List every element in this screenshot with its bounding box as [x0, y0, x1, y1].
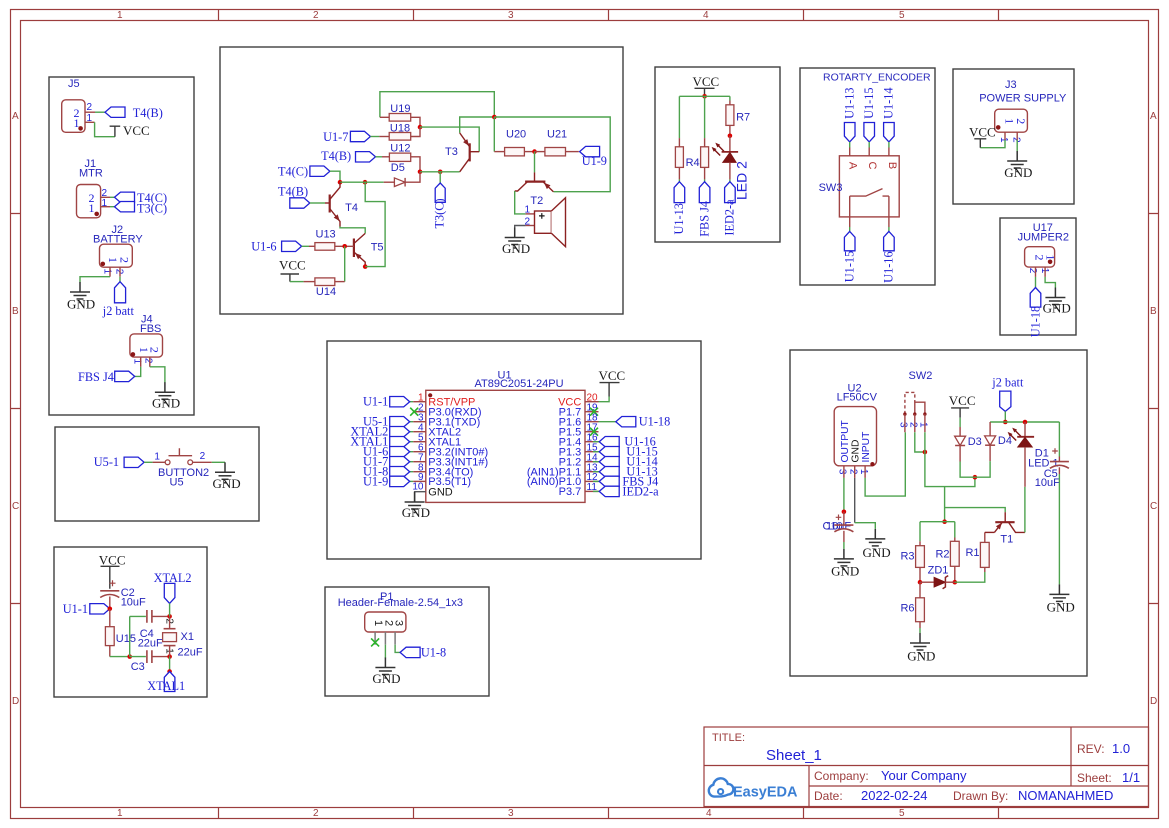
- junction dot row A right: [363, 180, 368, 185]
- section box header P1: [325, 587, 489, 696]
- mcu U1 pin 14 lead: [585, 461, 599, 463]
- svg-text:GND: GND: [1047, 600, 1075, 615]
- mcu U1 pin 3 lead: [410, 421, 414, 423]
- diode D3 triangle: [955, 436, 966, 445]
- mcu U1 pin 4 lead: [410, 431, 414, 433]
- resistor R3 bottom lead: [919, 567, 921, 582]
- ground (U1 pin10): [405, 492, 425, 513]
- junction dot R7/LED2: [728, 134, 733, 139]
- wire rail to R5: [704, 96, 706, 138]
- wire J4.2 to GND: [150, 367, 165, 383]
- svg-text:R1: R1: [965, 547, 979, 559]
- svg-text:U1-9: U1-9: [582, 154, 607, 168]
- resistor U21 left lead: [535, 151, 545, 153]
- wire U2.2 to GND: [855, 523, 876, 529]
- resistor U14 right lead: [335, 281, 345, 283]
- svg-text:U1-7: U1-7: [323, 130, 348, 144]
- svg-text:2: 2: [143, 358, 154, 364]
- svg-text:1: 1: [154, 452, 160, 463]
- wire P1.3 to U1-8: [395, 645, 400, 653]
- svg-text:T3(C): T3(C): [433, 198, 447, 228]
- wire R4 to U1-13 flag: [678, 179, 680, 181]
- wire speaker pin2 to GND: [515, 226, 526, 228]
- resistor R7 bottom lead: [729, 125, 731, 135]
- svg-text:2: 2: [1014, 118, 1028, 124]
- resistor U14 left lead: [304, 281, 315, 283]
- resistor R1 top lead: [984, 532, 986, 542]
- capacitor C10 curved plate: [834, 529, 853, 532]
- mcu U1 pin 13 lead: [585, 471, 599, 473]
- resistor U12 left lead: [382, 156, 389, 158]
- no-connect cross pin1: [371, 638, 379, 646]
- wire U1 pin 14 stub: [593, 461, 599, 463]
- net flag IED2-a (leds, pointing up): [725, 182, 736, 203]
- power VCC (J3) bar: [974, 139, 986, 148]
- header P1 body: [365, 612, 406, 632]
- section box mcu U1: [327, 341, 701, 559]
- wire U1 pin20 to VCC: [599, 397, 610, 402]
- section box J3 power supply: [953, 69, 1074, 204]
- section box power regulator: [790, 350, 1087, 676]
- mcu U1 pin 11 lead: [585, 490, 599, 492]
- no-connect cross U1 pin 17: [590, 428, 598, 436]
- net flag U1-6 (U1 left): [390, 447, 410, 457]
- svg-text:10uF: 10uF: [121, 597, 146, 609]
- wire C10 to GND: [843, 542, 845, 549]
- svg-text:1: 1: [525, 205, 531, 216]
- resistor U21 right lead: [566, 151, 579, 153]
- svg-text:1: 1: [998, 137, 1009, 143]
- wire T2 left leg to speaker pin1: [515, 191, 526, 214]
- net flag T4(B): [105, 107, 125, 117]
- mcu U1 pin 9 lead: [410, 480, 414, 482]
- led LED2 cathode bar: [722, 151, 739, 153]
- led LED2 bottom lead: [729, 162, 731, 179]
- svg-text:OUTPUT: OUTPUT: [840, 419, 851, 462]
- connector J5 pin 2 stub: [85, 111, 95, 113]
- junction dot ZD1 right: [953, 580, 958, 585]
- net flag U1-1 (U1 left): [390, 397, 410, 407]
- speaker LS body: [535, 211, 552, 233]
- svg-text:U20: U20: [506, 129, 526, 141]
- svg-text:Company:: Company:: [814, 769, 869, 783]
- wire R5 to FBS J4 flag: [704, 179, 706, 181]
- connector J5 body: [62, 100, 85, 133]
- ground (C5): [1049, 584, 1069, 605]
- resistor R2 bottom lead: [954, 566, 956, 582]
- diode D3 top lead: [959, 427, 961, 436]
- frame ticks left: [10, 214, 20, 604]
- svg-text:TITLE:: TITLE:: [712, 732, 745, 744]
- junction dot U1-1: [108, 607, 113, 612]
- transistor T2 base bar: [525, 181, 545, 183]
- svg-text:2: 2: [848, 469, 859, 475]
- title block v-line logo cell: [808, 766, 810, 807]
- capacitor C5 top lead: [1058, 457, 1060, 462]
- wire T4(B) to U12: [376, 156, 383, 158]
- wire R3/R2 rail: [920, 521, 955, 523]
- svg-text:GND: GND: [502, 241, 530, 256]
- transistor T4 base bar: [329, 195, 331, 213]
- resistor U18 left lead: [379, 136, 389, 138]
- resistor R3: [916, 546, 925, 568]
- junction dot VCC rail: [702, 94, 707, 99]
- transistor T4 collector: [330, 182, 340, 199]
- speaker LS horn: [551, 198, 565, 247]
- connector J4 junction dot pin1: [131, 352, 136, 357]
- power VCC (leds) bar: [695, 88, 715, 96]
- svg-text:3: 3: [392, 620, 404, 626]
- title block h-line under company row: [809, 785, 1149, 787]
- zener ZD1 left lead: [920, 581, 934, 583]
- diode D3 bottom lead: [959, 446, 961, 462]
- svg-text:D: D: [1150, 696, 1157, 707]
- capacitor C10 bottom lead: [843, 531, 845, 542]
- wire LED2 to IED2-a flag: [729, 179, 731, 181]
- wire row A: [340, 181, 384, 183]
- svg-text:5: 5: [899, 10, 905, 21]
- switch SW2 pin 3 lead: [904, 414, 906, 432]
- wire T5 emitter loop to row A: [365, 182, 385, 266]
- title block v-line rev cell: [1070, 727, 1072, 786]
- net flag IED2-a (U1 right): [599, 486, 619, 496]
- svg-text:1: 1: [1039, 268, 1050, 274]
- wire rail to R2: [954, 522, 956, 538]
- power VCC (U14) bar: [281, 274, 300, 282]
- led D1 bottom lead: [1024, 447, 1026, 487]
- mcu U1 body: [426, 390, 585, 502]
- svg-text:T4(C): T4(C): [278, 165, 308, 179]
- net flag U1-13 (leds, pointing up): [674, 182, 685, 203]
- diode D5 triangle: [394, 178, 405, 187]
- wire J5.2 to T4(B): [95, 111, 105, 113]
- wire j2 batt to rail: [1004, 411, 1006, 422]
- wire P1.2 to GND: [384, 645, 386, 659]
- wire J1.1 to T3(C): [110, 206, 115, 208]
- svg-text:B: B: [1150, 306, 1157, 317]
- button U5 actuator bar: [169, 448, 193, 456]
- transistor T4 base lead: [325, 202, 330, 204]
- resistor U18 right lead: [411, 127, 420, 136]
- svg-text:INPUT: INPUT: [861, 431, 872, 463]
- switch SW2 solid bracket: [915, 402, 925, 414]
- connector J1 junction dot pin1: [94, 212, 99, 217]
- resistor R4 bottom lead: [678, 167, 680, 179]
- svg-text:1: 1: [117, 808, 123, 819]
- svg-text:AT89C2051-24PU: AT89C2051-24PU: [475, 378, 564, 390]
- resistor U15 bottom lead: [109, 646, 111, 657]
- svg-text:U1-15: U1-15: [843, 251, 857, 282]
- transistor T3 lower diagonal: [460, 158, 470, 172]
- resistor R5 bottom lead: [704, 167, 706, 179]
- net flag T4(C) at J1: [115, 192, 135, 202]
- regulator U2 pin 2 gray lead: [854, 478, 856, 523]
- svg-text:VCC: VCC: [599, 368, 626, 383]
- svg-text:ZD1: ZD1: [928, 565, 949, 577]
- resistor R4: [675, 147, 683, 168]
- svg-text:D4: D4: [998, 435, 1012, 447]
- junction dot D1 top: [1023, 420, 1028, 425]
- wire flag A to SW3: [849, 142, 851, 148]
- wire U1 pin 11 stub: [593, 490, 599, 492]
- switch SW3 contact symbol: [850, 189, 889, 197]
- svg-text:4: 4: [703, 10, 709, 21]
- svg-text:1/1: 1/1: [1122, 770, 1140, 785]
- resistor U12: [389, 153, 410, 161]
- ground (U2 pin2): [865, 529, 885, 550]
- section box U17 jumper: [1000, 218, 1076, 335]
- wire XTAL2 to X1: [169, 603, 171, 616]
- wire branch to T1 base rail: [945, 487, 1006, 522]
- net flag U1-13 (encoder, pointing down): [844, 123, 855, 142]
- svg-text:U1-6: U1-6: [251, 239, 276, 253]
- wire VCC rail: [679, 95, 730, 97]
- svg-text:Drawn By:: Drawn By:: [953, 789, 1008, 803]
- wire U17.1 to GND: [1045, 277, 1055, 288]
- header P1 pin 1 lead: [374, 632, 376, 645]
- net flag U1-8 (U1 left): [390, 467, 410, 477]
- svg-text:J3: J3: [1005, 79, 1017, 91]
- net flag XTAL1 (U1 left): [390, 437, 410, 447]
- svg-text:JUMPER2: JUMPER2: [1018, 232, 1069, 244]
- junction dot U20/U21: [532, 149, 537, 154]
- wire J2.2 to j2 batt: [119, 277, 121, 282]
- wire U1 pin 16 stub: [593, 441, 599, 443]
- net flag FBS J4 (U1 right): [599, 476, 619, 486]
- transistor T4 emitter with arrow: [330, 209, 340, 227]
- junction dot X1 bottom: [167, 654, 172, 659]
- led LED2 emission arrows: [718, 145, 724, 151]
- svg-text:VCC: VCC: [123, 123, 150, 138]
- svg-text:1: 1: [858, 469, 869, 475]
- svg-text:IED2-a: IED2-a: [622, 484, 659, 498]
- net flag U1-14 (U1 right): [599, 457, 619, 467]
- net flag T4(B) upper: [356, 152, 376, 162]
- svg-text:D3: D3: [968, 436, 982, 448]
- button U5 contact circle 1: [165, 460, 170, 465]
- resistor R7 top lead: [729, 101, 731, 105]
- svg-text:FBS J4: FBS J4: [697, 201, 711, 237]
- wire U1 pin 12 stub: [593, 480, 599, 482]
- junction dot row A left: [338, 180, 343, 185]
- capacitor C3 plates: [147, 650, 152, 663]
- resistor U20 left lead: [494, 151, 504, 153]
- svg-text:3: 3: [508, 10, 514, 21]
- wire flag B to SW3: [888, 142, 890, 148]
- svg-text:GND: GND: [851, 440, 862, 463]
- wire J3.2 to GND: [1016, 140, 1018, 151]
- svg-text:T2: T2: [530, 195, 543, 207]
- svg-text:XTAL1: XTAL1: [147, 679, 185, 693]
- ground (C10): [834, 549, 854, 570]
- button U5 pin2 lead: [193, 461, 212, 463]
- section box crystal: [54, 547, 207, 697]
- wire rail to R7: [729, 96, 731, 100]
- transistor T1 emitter lead: [985, 531, 995, 533]
- wire VCC to D3: [959, 418, 961, 427]
- mcu U1 pin 7 lead: [410, 461, 414, 463]
- svg-text:2: 2: [87, 102, 93, 113]
- ground (U5): [215, 462, 235, 483]
- svg-text:Your Company: Your Company: [881, 768, 967, 783]
- section box rotary encoder: [800, 68, 935, 285]
- resistor U12 right lead: [411, 157, 420, 172]
- svg-text:2: 2: [313, 808, 319, 819]
- connector J3 pin 1 stub: [1004, 132, 1006, 140]
- resistor R6: [916, 598, 925, 622]
- resistor U18: [389, 133, 411, 141]
- regulator U2 pin 1 lead: [864, 466, 866, 478]
- section box connectors J5/J1/J2/J4: [49, 77, 194, 415]
- mcu U1 pin 8 lead: [410, 471, 414, 473]
- svg-text:U5: U5: [170, 477, 184, 489]
- wire C3 junction up to C4: [130, 616, 146, 656]
- net flag U1-7 (U1 left): [390, 457, 410, 467]
- svg-text:D5: D5: [391, 162, 405, 174]
- power VCC (J5): [110, 126, 121, 137]
- svg-text:2: 2: [147, 347, 161, 353]
- net flag T4(C): [310, 166, 330, 176]
- mcu U1 pin 19 lead: [585, 411, 599, 413]
- transistor T2 emitter diagonal with arrow: [543, 182, 554, 192]
- net flag j2 batt: [115, 282, 126, 303]
- ground (J2): [70, 282, 90, 303]
- svg-text:C: C: [12, 501, 19, 512]
- net flag U1-15 (encoder bottom, pointing up): [844, 231, 855, 250]
- capacitor C4 plates: [147, 610, 152, 623]
- wire U1 pin 13 stub: [593, 471, 599, 473]
- net flag U1-18 (jumper, pointing up): [1030, 288, 1041, 308]
- wire SW2.1 down to diode rail: [925, 432, 975, 486]
- svg-text:1: 1: [117, 10, 123, 21]
- regulator U2 body: [834, 407, 876, 466]
- svg-text:2: 2: [200, 451, 206, 462]
- mcu U1 pin 15 lead: [585, 451, 599, 453]
- wire D3 to rail: [960, 462, 975, 478]
- transistor T3 base bar: [469, 143, 471, 161]
- svg-text:j2 batt: j2 batt: [102, 304, 135, 318]
- capacitor C5 curved plate: [1050, 465, 1069, 468]
- wire T4 emitter to T5 collector: [340, 227, 365, 234]
- crystal X1 bottom plate: [164, 645, 176, 647]
- svg-text:ROTARTY_ENCODER: ROTARTY_ENCODER: [823, 72, 931, 84]
- easyeda logo cloud: [709, 778, 798, 800]
- wire U1 pin 18 to U1-18: [599, 421, 616, 423]
- svg-text:R6: R6: [900, 603, 914, 615]
- switch SW3 bottom pin right lead: [888, 217, 890, 227]
- svg-text:GND: GND: [428, 487, 453, 499]
- svg-text:LED 2: LED 2: [734, 161, 750, 200]
- resistor U13 right lead to T5 base: [335, 245, 354, 247]
- svg-text:VCC: VCC: [693, 74, 720, 89]
- junction dot XTAL1: [167, 669, 172, 674]
- svg-text:T4(B): T4(B): [278, 185, 308, 199]
- net flag U1-8 (header): [400, 647, 420, 657]
- net flag U1-6: [282, 241, 302, 251]
- wire rail to R3: [919, 522, 921, 542]
- svg-text:2: 2: [118, 257, 132, 263]
- zener ZD1 bent bar: [943, 576, 949, 589]
- jumper U17 pin 1 stub: [1044, 267, 1046, 277]
- net flag T3(C) at J1: [115, 202, 135, 212]
- no-connect cross U1 pin 19: [590, 408, 598, 416]
- switch SW3 internal leg left: [849, 196, 851, 217]
- wire U21 junction to T2: [534, 152, 536, 173]
- resistor R5 top lead: [704, 138, 706, 147]
- svg-text:U1-13: U1-13: [672, 203, 686, 234]
- capacitor C5 bottom lead: [1058, 467, 1060, 474]
- resistor U21: [545, 148, 566, 156]
- wire flag C to SW3: [868, 142, 870, 148]
- resistor U14: [315, 278, 335, 286]
- svg-text:VCC: VCC: [949, 393, 976, 408]
- title block h-line under title row: [704, 765, 1149, 767]
- capacitor C2 top plate: [100, 590, 119, 592]
- wire J1.2 to T4(C): [110, 196, 115, 198]
- net flag XTAL2 (pointing down): [164, 583, 175, 603]
- svg-text:X1: X1: [181, 631, 194, 643]
- led D1 emission arrows: [1015, 430, 1021, 436]
- mcu U1 pin 5 lead: [410, 441, 414, 443]
- wire main rail right: [494, 117, 610, 192]
- svg-text:R3: R3: [900, 551, 914, 563]
- diode D5 cathode bar: [404, 178, 406, 187]
- svg-text:GND: GND: [831, 564, 859, 579]
- resistor U13 left lead: [309, 245, 315, 247]
- junction dot C10: [842, 510, 847, 515]
- svg-text:IED2-a: IED2-a: [723, 199, 737, 236]
- wire rail to C5: [1058, 422, 1060, 457]
- led LED2 top lead: [729, 136, 731, 152]
- transistor T5 base bar: [353, 239, 355, 258]
- net flag U1-1 (crystal): [90, 604, 110, 614]
- transistor T3 collector wire from rail: [460, 117, 495, 133]
- led LED2 triangle: [723, 153, 736, 163]
- resistor R1 bottom lead: [984, 567, 986, 572]
- svg-text:U5-1: U5-1: [94, 455, 119, 469]
- resistor U15: [105, 627, 114, 646]
- svg-text:SW3: SW3: [819, 182, 843, 194]
- wire U2.1 to SW2.3: [865, 432, 905, 496]
- svg-text:2: 2: [114, 269, 125, 275]
- transistor T2 collector lead: [534, 172, 536, 181]
- net flag T3(C) (pointing down): [435, 183, 445, 202]
- speaker LS pin 2 lead: [526, 225, 535, 227]
- capacitor C2 curved plate: [100, 595, 119, 598]
- resistor R2: [950, 541, 959, 566]
- svg-text:j2 batt: j2 batt: [991, 375, 1024, 389]
- svg-text:A: A: [1150, 111, 1157, 122]
- power VCC (U1) bar: [600, 383, 620, 397]
- junction dot X1 top: [167, 614, 172, 619]
- net flag U1-13 (U1 right): [599, 467, 619, 477]
- resistor U13: [315, 243, 335, 251]
- svg-text:2: 2: [313, 10, 319, 21]
- transistor T1 base bar: [995, 521, 1014, 523]
- mcu U1 pin 10 lead: [415, 492, 426, 502]
- resistor U20 right lead: [524, 151, 534, 153]
- svg-text:VCC: VCC: [99, 553, 126, 568]
- connector J3 body: [995, 109, 1028, 132]
- svg-text:R2: R2: [935, 549, 949, 561]
- jumper U17 junction dot pin1: [1048, 260, 1053, 265]
- svg-text:GND: GND: [907, 649, 935, 664]
- wire U15 to C3 junction: [110, 656, 130, 658]
- wire SW2.2 to SW2.1: [915, 432, 925, 452]
- svg-text:2: 2: [908, 422, 919, 428]
- mcu U1 pin 2 lead: [413, 411, 426, 413]
- wire D4 to rail: [975, 461, 990, 477]
